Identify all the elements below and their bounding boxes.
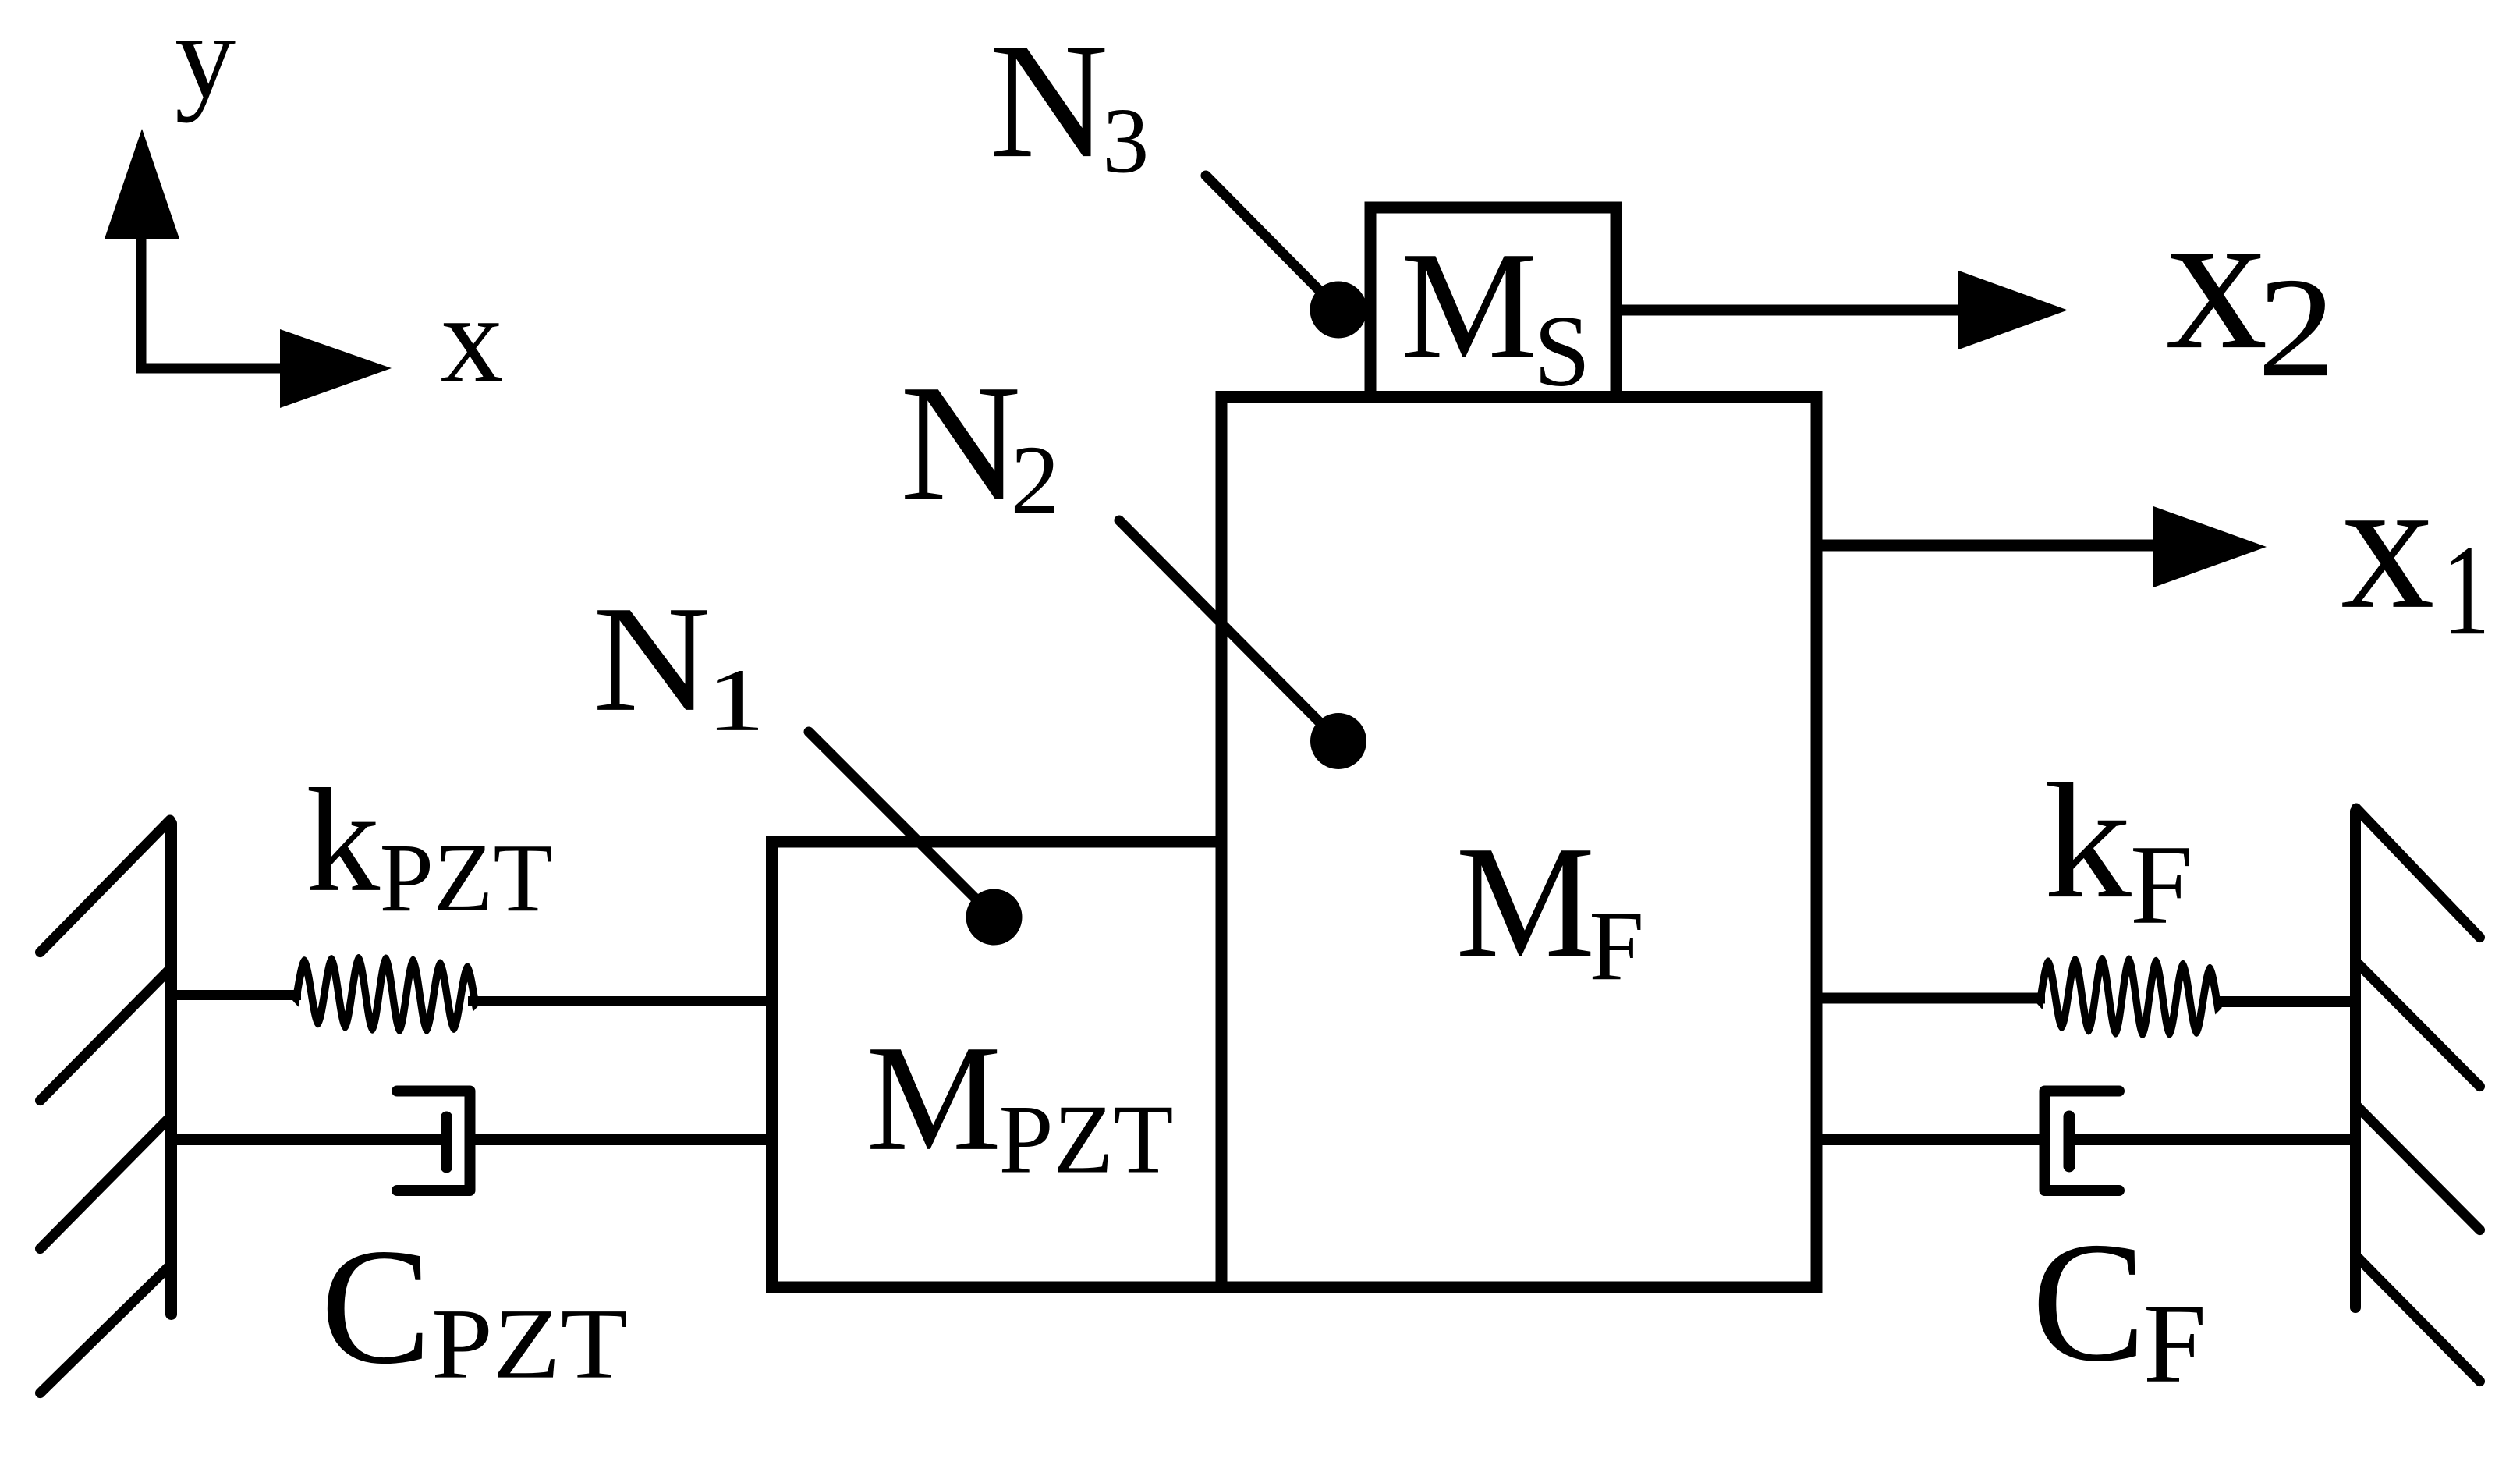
svg-text:x: x (2341, 440, 2435, 648)
svg-text:F: F (2130, 821, 2193, 948)
x1 arrow shaft (1816, 540, 2157, 552)
node N1 leader line (809, 732, 994, 917)
wire: left wall to damper CPZT piston (171, 1134, 441, 1145)
svg-text:PZT: PZT (380, 825, 553, 932)
x-axis arrowhead (280, 329, 392, 408)
svg-text:C: C (2032, 1207, 2146, 1397)
right wall (2350, 811, 2361, 1307)
svg-text:M: M (867, 1014, 1001, 1183)
damper CF piston (2064, 1116, 2075, 1166)
right wall hatch 1 (2356, 808, 2480, 938)
svg-text:C: C (321, 1215, 431, 1399)
mass MS box (1370, 208, 1616, 397)
svg-text:2: 2 (1010, 426, 1060, 535)
damper CF cylinder (2045, 1091, 2120, 1191)
coordinate axes origin (141, 239, 280, 368)
left wall hatch 2 (41, 969, 171, 1101)
svg-text:M: M (1455, 814, 1595, 992)
svg-text:1: 1 (2442, 518, 2490, 662)
x2 arrowhead (1958, 271, 2068, 350)
svg-text:F: F (1589, 892, 1644, 1001)
svg-text:x: x (2166, 166, 2268, 392)
wire: left wall to spring kPZT (171, 990, 301, 1000)
svg-text:N: N (989, 9, 1108, 192)
x2 arrow shaft (1616, 305, 1962, 316)
node N1 dot (966, 889, 1023, 946)
svg-text:S: S (1533, 295, 1590, 408)
svg-text:x: x (441, 269, 504, 408)
node N2 dot (1310, 713, 1366, 769)
svg-text:PZT: PZT (999, 1086, 1174, 1194)
svg-text:3: 3 (1102, 88, 1149, 192)
svg-text:N: N (593, 574, 711, 743)
svg-text:1: 1 (707, 651, 765, 750)
wire: spring kF to right wall (2220, 996, 2355, 1007)
svg-text:N: N (900, 349, 1021, 536)
spring kPZT (296, 963, 477, 1026)
left wall hatch 3 (41, 1117, 171, 1249)
spring kF (2040, 963, 2219, 1030)
svg-text:y: y (175, 0, 236, 123)
wire: damper CPZT to mass MPZT (470, 1134, 773, 1145)
left wall hatch 1 (41, 820, 171, 953)
mass MPZT box (772, 842, 1222, 1287)
mass MF box (1221, 397, 1816, 1288)
right wall hatch 3 (2356, 1105, 2480, 1230)
wire: damper CF piston to right wall (2069, 1134, 2355, 1145)
x1 arrowhead (2153, 506, 2267, 587)
node N2 leader line (1119, 520, 1338, 741)
wire: spring kPZT to mass MPZT (468, 996, 772, 1006)
left wall (165, 824, 177, 1315)
y-axis arrowhead (105, 129, 179, 239)
svg-text:PZT: PZT (431, 1288, 628, 1400)
svg-text:M: M (1401, 220, 1538, 391)
right wall hatch 4 (2356, 1256, 2480, 1382)
svg-text:2: 2 (2257, 248, 2335, 406)
left wall hatch 4 (41, 1265, 171, 1393)
wire: mass MF to damper CF cylinder (1816, 1134, 2044, 1145)
svg-text:k: k (306, 759, 380, 923)
svg-text:k: k (2044, 750, 2132, 933)
svg-text:F: F (2143, 1280, 2206, 1407)
wire: mass MF to spring kF (1816, 993, 2045, 1004)
node N3 leader line (1206, 176, 1338, 310)
damper CPZT cylinder (397, 1091, 470, 1191)
damper CPZT piston (441, 1117, 452, 1167)
right wall hatch 2 (2356, 962, 2480, 1087)
node N3 dot (1310, 282, 1367, 339)
